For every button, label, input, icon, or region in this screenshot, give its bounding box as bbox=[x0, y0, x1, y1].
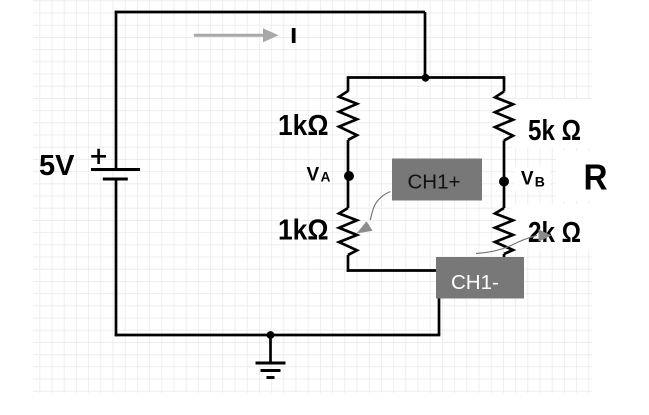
svg-text:A: A bbox=[321, 170, 331, 185]
svg-text:V: V bbox=[521, 168, 534, 189]
CH1- gray box bbox=[436, 257, 524, 299]
svg-text:1kΩ: 1kΩ bbox=[278, 110, 329, 142]
svg-text:CH1-: CH1- bbox=[451, 271, 499, 294]
CH1+ gray box bbox=[392, 159, 482, 201]
resistor R1 1k ohm top-left bbox=[339, 91, 357, 140]
svg-text:V: V bbox=[307, 165, 320, 186]
current arrow I head bbox=[263, 28, 279, 42]
svg-text:5V: 5V bbox=[39, 150, 75, 182]
ground symbol bar 3 bbox=[267, 376, 275, 379]
resistor R2 1k ohm bottom-left bbox=[339, 208, 357, 255]
node VB dot bbox=[499, 177, 509, 187]
svg-text:R: R bbox=[584, 157, 608, 198]
CH1+ callout arrowhead bbox=[357, 221, 373, 233]
node ground junction dot bbox=[267, 331, 275, 339]
white label backdrop R bbox=[556, 151, 624, 201]
wire bridge top bbox=[348, 76, 504, 79]
battery plus sign bbox=[91, 149, 106, 164]
ground symbol bar 2 bbox=[261, 369, 281, 372]
svg-text:5k Ω: 5k Ω bbox=[528, 115, 581, 147]
node VA dot bbox=[344, 171, 354, 181]
wire left branch mid bbox=[347, 140, 350, 208]
svg-text:2k Ω: 2k Ω bbox=[528, 217, 581, 249]
wire top rail bbox=[115, 11, 425, 14]
battery V1 positive plate bbox=[91, 168, 140, 171]
current arrow I shaft bbox=[194, 34, 265, 37]
node junction dot top bbox=[422, 74, 430, 82]
label I bbox=[292, 28, 296, 43]
wire left branch upper stub bbox=[347, 76, 350, 91]
wire bridge bottom bbox=[347, 269, 504, 272]
ground symbol bar 1 bbox=[256, 362, 286, 365]
svg-text:1kΩ: 1kΩ bbox=[278, 215, 329, 247]
wire right branch mid bbox=[503, 141, 506, 209]
wire ground stem bbox=[269, 335, 272, 363]
wire bottom rail bbox=[115, 334, 441, 337]
wire right branch lower stub bbox=[503, 254, 506, 272]
wire top junction drop bbox=[424, 12, 427, 78]
white label backdrop VB bbox=[514, 167, 550, 191]
resistor R3 5k ohm top-right bbox=[495, 92, 513, 141]
CH1- callout leader curve bbox=[476, 235, 537, 253]
wire left feed lower (battery to bottom rail) bbox=[115, 179, 118, 336]
svg-text:B: B bbox=[535, 173, 545, 189]
CH1+ callout leader curve bbox=[370, 192, 390, 221]
white label backdrop 5k ohm bbox=[512, 99, 596, 148]
svg-text:CH1+: CH1+ bbox=[408, 171, 461, 194]
wire left feed upper (battery top) bbox=[115, 11, 118, 169]
wire left branch lower stub bbox=[347, 255, 350, 272]
resistor R4 2k ohm bottom-right bbox=[495, 208, 513, 254]
battery V1 negative plate bbox=[103, 177, 128, 180]
white label backdrop 2k ohm bbox=[512, 204, 596, 249]
CH1- callout arrowhead bbox=[539, 229, 552, 241]
wire bridge-to-rail drop bbox=[438, 271, 441, 336]
wire right branch upper stub bbox=[503, 76, 506, 91]
